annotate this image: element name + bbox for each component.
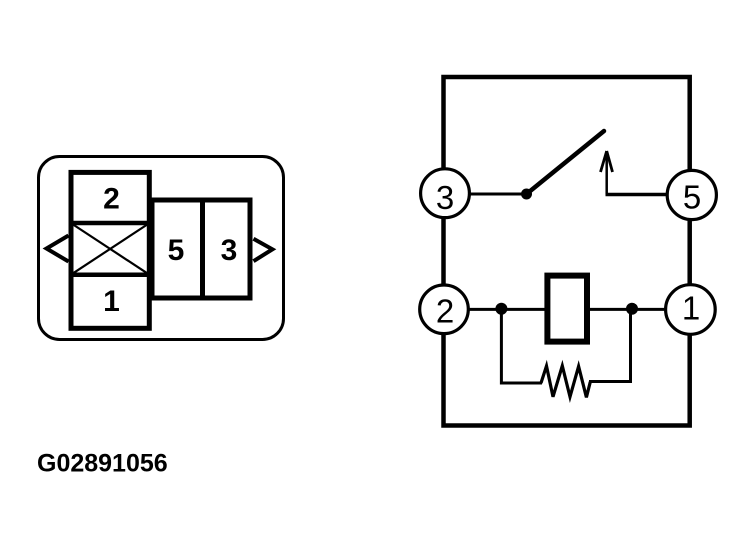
switch pivot junction dot	[521, 189, 532, 200]
left keying arrow	[47, 236, 69, 262]
switch actuation arrow	[601, 151, 613, 195]
svg-text:2: 2	[436, 292, 454, 329]
wire terminal3 to switch pivot	[466, 193, 527, 196]
cavity divider above keyway	[69, 221, 151, 226]
switch blade (contact arm)	[527, 131, 605, 194]
wire terminal 2 to coil	[466, 308, 546, 311]
wire left junction down	[500, 309, 503, 385]
svg-text:3: 3	[221, 234, 238, 267]
svg-text:G02891056: G02891056	[37, 450, 168, 478]
junction dot right (node to resistor)	[626, 303, 638, 315]
svg-text:5: 5	[683, 178, 701, 215]
connector cavity block (pins 5 / 3)	[152, 200, 250, 298]
relay coil	[547, 276, 587, 342]
terminal 2	[420, 285, 469, 334]
svg-text:2: 2	[103, 182, 120, 215]
terminal 3	[421, 169, 470, 218]
wire right junction down	[629, 309, 632, 383]
resistor (zigzag)	[541, 366, 590, 398]
keyway X cross	[72, 224, 149, 275]
connector face view outline	[39, 157, 284, 340]
svg-text:1: 1	[103, 285, 120, 318]
divider between cavity 5 and 3	[200, 198, 205, 300]
right keying arrow	[254, 239, 273, 261]
cavity divider below keyway	[69, 272, 151, 277]
svg-text:5: 5	[168, 234, 185, 267]
terminal 1	[666, 285, 716, 335]
wire coil to terminal 1	[589, 308, 668, 311]
svg-text:1: 1	[682, 289, 700, 326]
junction dot left (node to resistor)	[495, 303, 507, 315]
svg-text:3: 3	[436, 179, 454, 216]
terminal 5	[667, 170, 716, 219]
wire arrow corner to terminal 5	[606, 193, 669, 197]
wire resistor right	[589, 380, 632, 383]
relay case / circuit loop	[444, 77, 690, 426]
wire to resistor left	[500, 382, 542, 385]
connector cavity column (pins 2 / keyway / 1)	[71, 172, 149, 328]
